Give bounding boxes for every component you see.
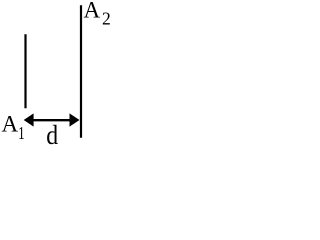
svg-text:1: 1 bbox=[18, 124, 25, 143]
wire: d-arrow shaft bbox=[31, 119, 72, 121]
svg-text:A: A bbox=[84, 0, 101, 23]
plate line A1 (left vertical line) bbox=[24, 34, 26, 108]
svg-text:2: 2 bbox=[102, 9, 111, 29]
right arrowhead bbox=[70, 113, 80, 126]
svg-text:d: d bbox=[46, 119, 58, 150]
svg-text:A: A bbox=[2, 112, 19, 137]
plate line A2 (right vertical line) bbox=[80, 5, 82, 138]
left arrowhead bbox=[24, 113, 34, 126]
background bbox=[0, 0, 114, 155]
